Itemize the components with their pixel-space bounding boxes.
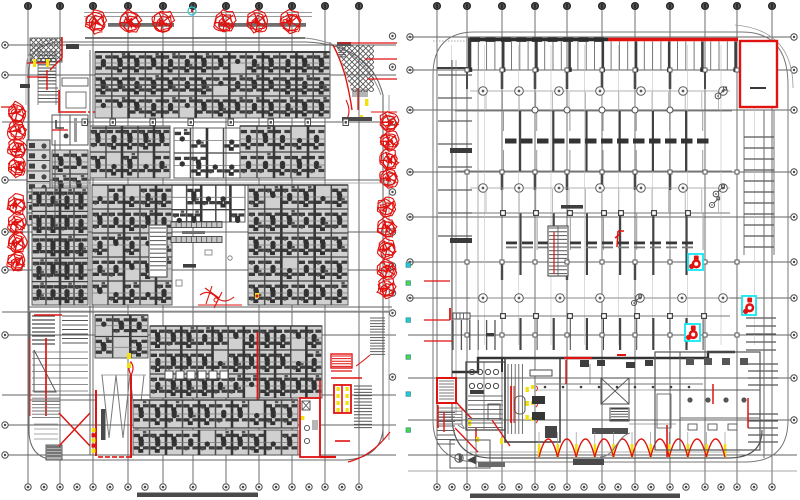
top-left wall step of right plan xyxy=(433,38,470,68)
east red striped stair block xyxy=(331,354,352,371)
left plan column grid verticals xyxy=(28,10,359,483)
left toilet stack xyxy=(27,140,50,225)
survey marker 3 xyxy=(631,300,636,305)
band top rails xyxy=(92,126,348,428)
lower striped block xyxy=(439,408,464,432)
south band cluster west xyxy=(95,315,148,358)
left edge stall rungs xyxy=(438,74,472,76)
top-left stair flights xyxy=(38,50,58,105)
south central dense block xyxy=(150,326,322,398)
ceiling fan 2 xyxy=(120,9,142,31)
left plan grid horizontals xyxy=(2,45,396,455)
right plan half-pitch light verticals xyxy=(452,45,755,345)
right plan title bar xyxy=(470,494,680,499)
right inner vertical wall xyxy=(763,110,765,458)
left edge lower rung stack xyxy=(437,407,455,409)
survey marker 1 xyxy=(715,93,721,99)
service stair dark xyxy=(610,408,629,421)
right edge ladder bottom xyxy=(748,413,778,415)
mid band east cubicle cluster xyxy=(240,126,325,178)
left inner wall right plan xyxy=(452,60,478,415)
red electrical room top-right xyxy=(740,41,777,107)
center open area light marks xyxy=(176,250,232,286)
left edge dark dashes xyxy=(450,148,472,243)
red vertical in arcs row xyxy=(666,425,668,457)
service zone top boundary xyxy=(452,352,735,372)
ceiling fan 1 xyxy=(86,10,107,29)
band 4 rail and markers xyxy=(452,314,730,319)
right plan right-edge bubbles xyxy=(791,34,797,423)
left plan title bar xyxy=(137,493,258,498)
generator room block xyxy=(466,362,505,430)
parking bubble row 2 xyxy=(470,184,730,193)
fire extinguisher icon A xyxy=(688,254,703,270)
beam dash above band 3 xyxy=(561,205,583,209)
left plan top fan row - thin rails xyxy=(84,13,312,17)
top parking stall band xyxy=(468,42,738,72)
ceiling fan 3 xyxy=(153,11,175,31)
red riser line center-south xyxy=(255,293,259,418)
south tables row xyxy=(165,371,228,379)
main west cubicle column xyxy=(32,188,88,305)
service zone bottom boundary xyxy=(452,415,762,458)
main band cluster 3 sparse xyxy=(172,185,245,222)
top-left stair block with diamond lattice xyxy=(0,34,107,66)
dark platform bar xyxy=(592,428,628,434)
machine tank xyxy=(515,396,525,414)
corridor double lines xyxy=(28,183,392,311)
parking bubble row 1 xyxy=(470,87,730,96)
fire extinguisher icon C xyxy=(742,296,756,315)
red wall segment service top xyxy=(564,355,626,384)
red riser x96 xyxy=(92,390,97,456)
left plan left-edge grid bubbles xyxy=(2,42,8,458)
main band center long tables xyxy=(171,222,222,268)
stems below bubble row 2 xyxy=(486,189,718,212)
detail box below plan xyxy=(450,440,505,468)
ceiling fan 5 xyxy=(248,10,268,30)
right plan top wall dark segment xyxy=(468,38,608,42)
left plan boundary outline xyxy=(26,38,383,460)
red X brace xyxy=(59,413,90,446)
storage arcs row xyxy=(538,432,727,457)
stems below bubble row 1 xyxy=(486,92,718,110)
parking band 4 left dense stalls xyxy=(452,320,454,350)
left plan right boundary inner line xyxy=(388,95,390,440)
top-right stair block with diamond lattice xyxy=(275,40,446,95)
column marker squares row xyxy=(82,119,349,126)
right plan grid verticals xyxy=(437,10,772,483)
left plan top fan row - thick support bars xyxy=(108,23,306,27)
electrical room center xyxy=(505,358,560,442)
left red leader dashes xyxy=(424,281,452,341)
left edge fan cluster lower xyxy=(7,194,27,271)
red dashed threshold xyxy=(98,456,131,458)
bottom-left ramp lines xyxy=(30,395,96,439)
left plan interior main walls xyxy=(55,42,330,455)
right plan boundary xyxy=(433,25,793,462)
bottom cubicle rows xyxy=(133,400,298,428)
east service rooms xyxy=(655,352,760,450)
parking band 3 bay dividers xyxy=(521,213,704,275)
east red-yellow service shaft xyxy=(331,378,372,428)
cyan detail circle at top xyxy=(188,7,196,15)
switch room with X xyxy=(601,378,629,404)
cyan left markers xyxy=(406,263,411,433)
inter-plan bubble column xyxy=(407,34,413,301)
ceiling fan 4 xyxy=(214,10,236,31)
central stair block right plan xyxy=(548,226,568,276)
marker squares on line y213 xyxy=(455,211,730,216)
survey marker top xyxy=(709,202,714,207)
duct zigzag tall triangles xyxy=(101,375,146,438)
service corridor lines xyxy=(536,364,703,424)
middle parking dashed spine xyxy=(505,139,709,144)
bottom-left dark block xyxy=(46,445,62,460)
band 4 left hatch bar xyxy=(450,308,494,336)
gray S-curve ramp xyxy=(600,433,630,457)
mid band center cluster xyxy=(174,128,240,178)
left plan bottom grid bubbles xyxy=(25,484,362,490)
right edge fan cluster upper xyxy=(380,112,399,189)
parking bubble row 3 xyxy=(470,294,730,303)
top-right stair red accents xyxy=(333,45,368,121)
main band east cluster xyxy=(248,185,348,305)
right plan column stubs below grid lines xyxy=(467,70,705,280)
stair ladder center xyxy=(149,225,167,277)
red-yellow glyph column machine room xyxy=(531,385,538,423)
red diagonal and yellow marks xyxy=(456,402,479,442)
top block heavy rail xyxy=(95,52,330,85)
east side stair rung stack xyxy=(356,318,385,366)
southwest red riser xyxy=(30,315,62,416)
top office cubicle block xyxy=(95,52,330,118)
left plan right-edge bubble column xyxy=(389,33,395,380)
ceiling fan 6 xyxy=(280,10,301,31)
lobby boxes xyxy=(62,78,88,108)
right edge ladder upper xyxy=(744,110,774,255)
main band cluster 2 xyxy=(92,185,172,305)
middle parking band rails xyxy=(455,111,732,171)
dark blobs along service boundary xyxy=(580,360,653,368)
dark bar below boundary xyxy=(573,459,604,465)
elevator cells xyxy=(52,115,88,145)
right edge fan cluster lower xyxy=(377,197,397,298)
fire extinguisher icon B xyxy=(685,324,700,341)
right edge ladder mid xyxy=(746,317,776,319)
column circles on grid row y110 xyxy=(532,107,673,113)
top-right stair stripe blocks xyxy=(338,48,372,121)
red riser at x131 xyxy=(127,353,133,458)
red leader dashes right of top-right stair xyxy=(338,43,397,112)
left column cubicles upper xyxy=(52,150,88,222)
survey marker 2 xyxy=(713,191,719,197)
right plan bottom grid bubbles xyxy=(434,484,775,490)
right plan top grid bubbles xyxy=(434,3,776,10)
top-left dark door dashes xyxy=(20,44,79,88)
dark slab in zigzag xyxy=(101,409,106,440)
right plan top wall red segment xyxy=(608,38,738,41)
parking band 4 bay dividers xyxy=(521,318,704,350)
red sprinkler squiggle center xyxy=(198,286,242,308)
top-left stair red walls xyxy=(27,37,118,130)
red diagonals bottom-left service xyxy=(455,420,510,452)
left plan top grid bubbles xyxy=(25,3,363,10)
parking band 3 dashed spine xyxy=(506,242,693,249)
middle parking bay dividers xyxy=(504,111,703,171)
left edge red leader dash xyxy=(1,106,18,108)
mid band west cubicle cluster xyxy=(90,126,170,178)
southwest stair block xyxy=(30,312,90,395)
red arrow mark band 3 xyxy=(615,231,624,247)
right edge ladder low xyxy=(748,363,778,365)
right plan grid horizontals xyxy=(408,37,797,471)
left red pump room xyxy=(437,378,456,428)
column marker squares right plan xyxy=(465,68,739,337)
red toilet room bottom-right xyxy=(300,380,390,462)
left edge fan cluster upper xyxy=(8,101,28,177)
